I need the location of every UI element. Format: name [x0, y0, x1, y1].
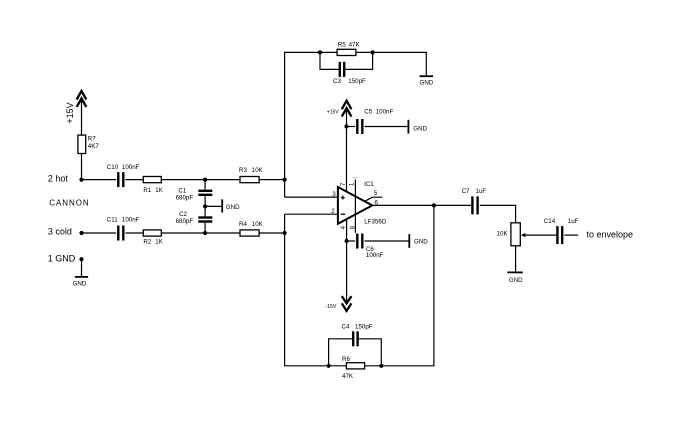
wire vertical B (feedback bottom left)	[285, 214, 329, 366]
wire cold terminal to C11	[82, 232, 117, 234]
svg-text:10K: 10K	[252, 167, 264, 174]
svg-text:2 hot: 2 hot	[48, 174, 69, 184]
resistor R1	[143, 177, 163, 194]
svg-text:R2: R2	[143, 238, 151, 245]
svg-text:R7: R7	[88, 135, 96, 142]
svg-text:GND: GND	[414, 239, 428, 246]
pin 5 stub	[365, 190, 383, 201]
svg-text:GND: GND	[413, 125, 427, 132]
svg-text:1K: 1K	[155, 238, 163, 245]
wire R4 to vertical B	[259, 232, 285, 234]
wire +15V to R7	[81, 100, 83, 136]
wire R5 right to GND corner	[356, 52, 426, 75]
op-amp IC1	[338, 181, 387, 225]
svg-text:680pF: 680pF	[176, 218, 194, 225]
capacitor C6	[347, 234, 409, 260]
power +15V opamp symbol	[327, 101, 352, 117]
wire C7 to pot	[480, 205, 516, 222]
svg-text:100nF: 100nF	[366, 252, 384, 259]
wire pot wiper to C14	[525, 234, 557, 236]
node hot terminal junction	[79, 178, 83, 182]
resistor R3	[239, 167, 264, 183]
wire C2 to cold	[204, 223, 206, 233]
svg-text:3 cold: 3 cold	[48, 226, 72, 236]
resistor R4	[239, 221, 264, 236]
wire pin 4 down	[346, 219, 348, 303]
wire R3 to vertical A	[259, 179, 285, 181]
potentiometer 10K	[497, 223, 526, 246]
svg-text:1uF: 1uF	[568, 218, 579, 225]
svg-text:R6: R6	[342, 356, 350, 363]
wire C10 to R1	[126, 179, 144, 181]
node hot / C1 junction	[203, 178, 207, 182]
svg-text:R5: R5	[338, 42, 346, 49]
svg-text:1uF: 1uF	[476, 188, 487, 195]
wire opamp output to C7	[372, 204, 471, 206]
node 1 GND terminal dot	[79, 257, 83, 261]
svg-text:-15V: -15V	[325, 304, 336, 310]
svg-text:R3: R3	[239, 167, 247, 174]
capacitor C5	[347, 109, 409, 135]
node R5 left junction	[318, 50, 322, 54]
node R6 right junction	[379, 364, 383, 368]
node R6 left junction	[327, 364, 331, 368]
power -15V symbol	[325, 296, 351, 311]
capacitor C4 with branch wires	[329, 324, 382, 366]
svg-text:1: 1	[349, 182, 355, 186]
node cold / feedback junction	[283, 231, 287, 235]
node output / feedback junction	[432, 203, 436, 207]
ground C5	[408, 120, 427, 134]
svg-text:GND: GND	[73, 281, 87, 288]
svg-text:680pF: 680pF	[176, 194, 194, 201]
wire pin2 stub	[285, 213, 339, 215]
capacitor C3 with branch wires	[320, 52, 373, 85]
svg-text:4K7: 4K7	[88, 143, 100, 150]
node pin4 / C6 junction	[345, 239, 349, 243]
svg-text:100nF: 100nF	[122, 164, 140, 171]
svg-text:3: 3	[332, 191, 336, 198]
wire pin3 stub	[285, 196, 339, 198]
node hot / feedback junction	[283, 178, 287, 182]
svg-text:IC1: IC1	[364, 181, 374, 188]
node cold / C2 junction	[203, 231, 207, 235]
wire R6 span	[329, 365, 347, 367]
wire R2 to R4	[161, 232, 240, 234]
svg-text:C5: C5	[364, 109, 372, 116]
svg-text:10K: 10K	[497, 231, 509, 238]
node R5 right junction	[371, 50, 375, 54]
svg-text:47K: 47K	[349, 42, 361, 49]
svg-text:C14: C14	[544, 218, 556, 225]
svg-text:150pF: 150pF	[355, 324, 373, 331]
resistor R2	[143, 230, 163, 246]
svg-text:GND: GND	[420, 80, 434, 87]
svg-text:C4: C4	[342, 324, 350, 331]
svg-text:100nF: 100nF	[122, 217, 140, 224]
resistor R7	[78, 135, 99, 153]
svg-text:GND: GND	[509, 277, 523, 284]
svg-text:1K: 1K	[155, 187, 163, 194]
svg-text:C10: C10	[107, 164, 119, 171]
svg-text:C11: C11	[107, 217, 118, 224]
capacitor C7	[462, 188, 487, 214]
wire bottom feedback to output	[381, 205, 434, 365]
pin 1/8 stub line	[353, 178, 358, 233]
wire C14 to envelope	[564, 234, 578, 236]
svg-text:150pF: 150pF	[348, 78, 366, 85]
wire R6 right	[365, 365, 382, 367]
svg-text:GND: GND	[226, 204, 240, 211]
resistor R6	[342, 356, 365, 380]
capacitor C11	[107, 217, 140, 241]
wire C11 to R2	[126, 232, 144, 234]
power +15V left symbol	[65, 91, 86, 124]
wire R1 to R3	[161, 179, 240, 181]
wire vertical A (feedback top left)	[285, 52, 338, 197]
svg-text:5: 5	[374, 190, 378, 197]
svg-text:to envelope: to envelope	[587, 230, 634, 240]
ground top right	[420, 76, 434, 86]
wire hot to C1	[204, 180, 206, 190]
ground pot	[507, 272, 523, 284]
svg-text:C2: C2	[179, 211, 187, 218]
ground mid (C1/C2)	[205, 199, 240, 212]
svg-text:CANNON: CANNON	[49, 199, 89, 208]
wire mid node to C2	[204, 206, 206, 216]
svg-text:R1: R1	[143, 187, 151, 194]
svg-text:47K: 47K	[342, 373, 354, 380]
svg-text:R4: R4	[239, 221, 247, 228]
capacitor C10	[107, 164, 140, 187]
capacitor C14	[544, 218, 579, 244]
svg-text:1 GND: 1 GND	[48, 254, 76, 264]
svg-text:+15V: +15V	[327, 109, 339, 115]
resistor R5	[337, 42, 360, 56]
svg-text:C7: C7	[462, 188, 470, 195]
wire R7 to hot node	[81, 154, 83, 180]
capacitor C2	[176, 211, 213, 225]
capacitor C1	[176, 188, 213, 202]
wire pot bottom to GND	[515, 246, 517, 273]
ground C6	[409, 234, 428, 248]
wire C1 to mid node	[204, 196, 206, 207]
ground cannon shield	[73, 259, 89, 287]
svg-text:10K: 10K	[252, 221, 264, 228]
svg-text:+15V: +15V	[65, 102, 75, 123]
svg-text:LF356D: LF356D	[364, 218, 387, 225]
wire +15V rail to pin7	[346, 109, 348, 191]
wire hot terminal to C10	[82, 179, 117, 181]
svg-text:100nF: 100nF	[376, 109, 394, 116]
svg-text:C3: C3	[333, 78, 341, 85]
node cold terminal junction	[79, 231, 83, 235]
node supply / C5 junction	[344, 124, 348, 128]
node C1 C2 mid junction	[203, 204, 207, 208]
